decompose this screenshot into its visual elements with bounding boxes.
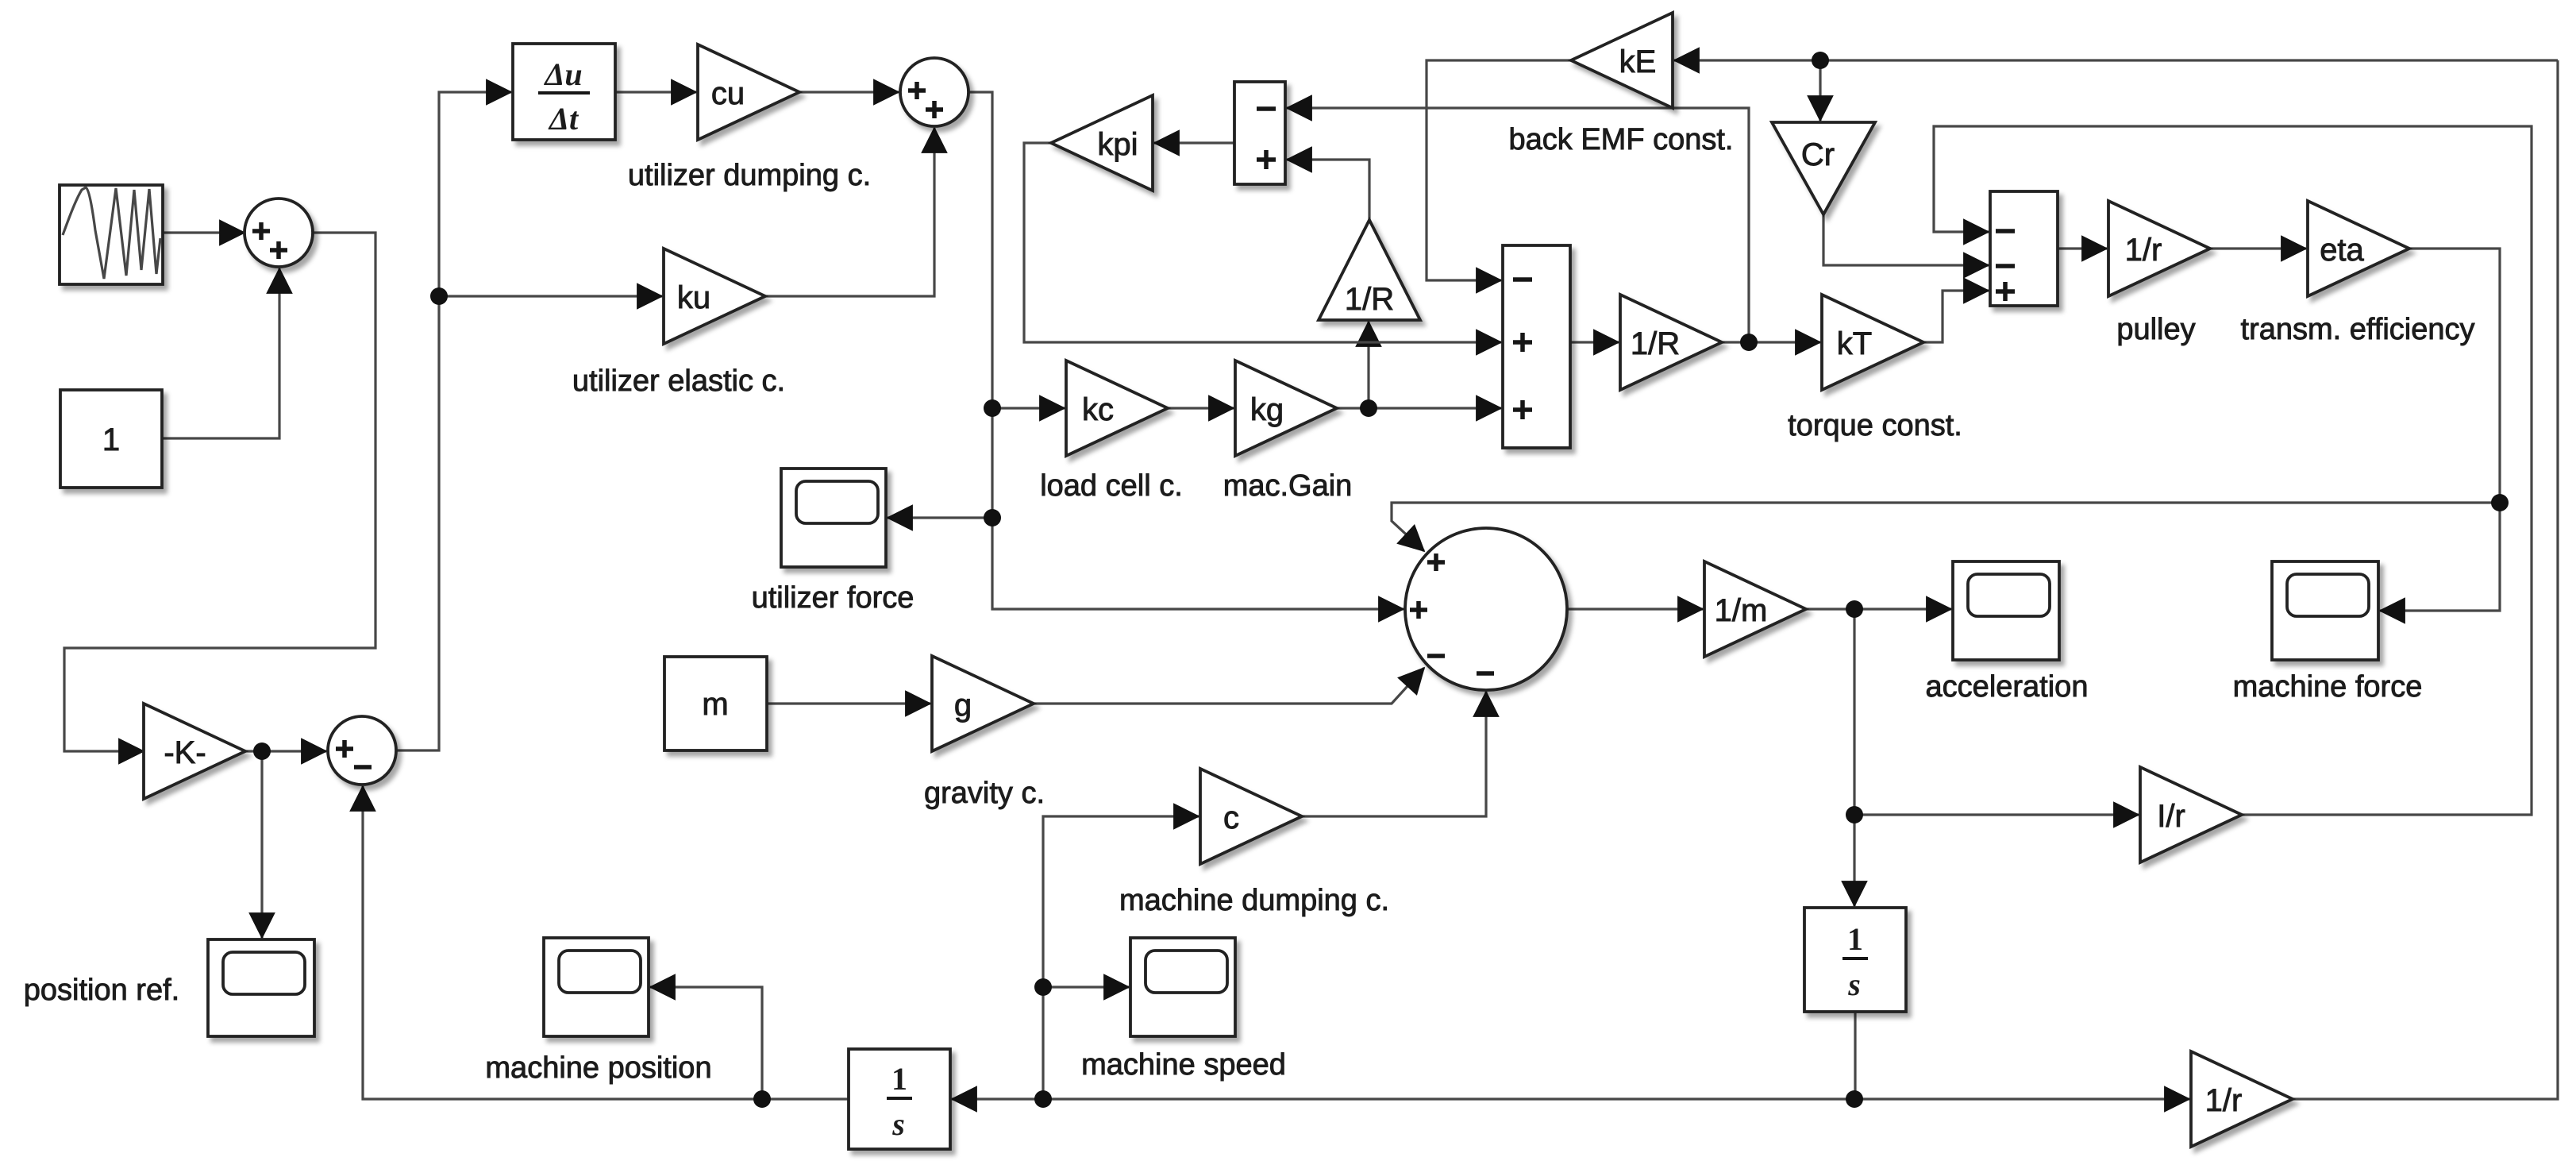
wire: sum S4 output to gain kpi	[1154, 141, 1234, 144]
svg-text:torque const.: torque const.	[1788, 409, 1962, 442]
sum block S6	[1990, 191, 2058, 306]
node: kc branch	[984, 399, 1001, 417]
big sum junction	[1405, 528, 1567, 690]
wire: gain 1/r pulley to gain eta	[2210, 247, 2306, 249]
svg-text:cu: cu	[711, 76, 745, 111]
wire: branch down to gain Cr	[1819, 60, 1821, 121]
wire: gain Cr to sum S6 middle minus input	[1823, 214, 1989, 265]
node: kg output branch	[1360, 399, 1377, 417]
svg-text:1: 1	[1847, 921, 1863, 957]
wire: branch up to machine position scope	[650, 987, 762, 1099]
sum junction S3	[900, 58, 968, 126]
wire: big sum output to gain 1/m	[1566, 607, 1703, 610]
svg-text:utilizer elastic c.: utilizer elastic c.	[572, 364, 785, 398]
gain kT	[1822, 295, 1923, 390]
svg-text:machine speed: machine speed	[1081, 1048, 1286, 1082]
svg-text:kT: kT	[1837, 326, 1872, 361]
svg-text:mac.Gain: mac.Gain	[1223, 469, 1353, 503]
integrator 1/s right	[1804, 908, 1906, 1012]
wire: gain cu to sum S3	[799, 91, 899, 93]
wire: gain kT to sum S6 plus input	[1923, 291, 1989, 342]
node: after -K-	[253, 742, 271, 760]
svg-text:1/R: 1/R	[1345, 282, 1394, 317]
gain eta	[2308, 201, 2409, 296]
constant block m	[664, 657, 767, 750]
node: utilizer force branch	[984, 509, 1001, 526]
wire: sum S3 output down to big sum left input	[968, 92, 1404, 609]
wire: gain 1/m to acceleration scope	[1806, 607, 1951, 610]
gain ku	[664, 249, 765, 344]
svg-text:I/r: I/r	[2157, 799, 2185, 834]
svg-text:utilizer force: utilizer force	[752, 581, 914, 615]
wire: gain 1/R (up) output to sum S4 plus input	[1287, 160, 1369, 220]
sum junction S1	[245, 199, 313, 267]
svg-text:kE: kE	[1619, 44, 1657, 79]
svg-text:kc: kc	[1082, 392, 1114, 427]
wire: branch to gain kc	[992, 407, 1065, 409]
gain 1/m	[1704, 561, 1806, 657]
wire: gain 1/r bottom output up right edge to speed feedback	[2293, 60, 2558, 1099]
svg-text:Δu: Δu	[543, 56, 582, 92]
node: current branch	[1740, 334, 1758, 351]
svg-text:kg: kg	[1250, 392, 1284, 427]
signal generator source block	[60, 185, 163, 284]
wire: gain ku to sum S3 bottom	[765, 128, 934, 296]
sum junction S2	[328, 716, 396, 785]
svg-text:1/r: 1/r	[2205, 1083, 2243, 1118]
svg-text:machine force: machine force	[2233, 670, 2423, 704]
svg-text:back EMF const.: back EMF const.	[1509, 123, 1734, 156]
integrator 1/s bottom	[849, 1049, 950, 1149]
svg-text:position ref.: position ref.	[24, 974, 179, 1007]
gain 1/R (up)	[1319, 220, 1420, 320]
gain kpi	[1051, 95, 1153, 191]
svg-text:1: 1	[891, 1061, 907, 1097]
node: I/r branch	[1846, 806, 1863, 823]
node: machine position branch	[753, 1090, 771, 1108]
wire: sum S5 output to gain 1/R	[1570, 341, 1619, 343]
wire: gain g to big sum lower-left minus input	[1034, 668, 1424, 704]
wire: current branch up to sum S4 minus input	[1287, 108, 1749, 342]
wire: gain kg to sum S5 bottom input	[1337, 407, 1501, 409]
wire: gain kE output to sum S5 minus input	[1427, 60, 1571, 280]
gain kE	[1571, 13, 1673, 108]
wire: speed line right to gain 1/r bottom	[1854, 1097, 2189, 1100]
wire: branch down to integrator 1/s right	[1853, 815, 1855, 906]
wire: gain eta output down to machine force scope	[2380, 249, 2500, 611]
gain g	[932, 656, 1034, 751]
wire: gain I/r output feedback to sum S6 top minus input	[1934, 126, 2532, 815]
svg-text:1: 1	[102, 422, 120, 457]
wire: gain -K- to sum S2	[245, 750, 326, 752]
wire: gain 1/R to gain kT	[1722, 341, 1820, 343]
wire: branch to big sum top plus input	[1392, 503, 2500, 551]
gain 1/r pulley	[2108, 201, 2210, 296]
svg-text:m: m	[702, 687, 728, 722]
scope: acceleration	[1953, 561, 2059, 660]
node: speed to Cr branch	[1812, 52, 1829, 69]
gain -K-	[144, 704, 245, 799]
svg-text:Δt: Δt	[548, 101, 580, 137]
constant block 1	[60, 390, 162, 488]
gain kg	[1235, 361, 1337, 456]
scope: position ref.	[208, 939, 314, 1036]
gain Cr	[1772, 122, 1875, 214]
scope: machine speed	[1130, 938, 1235, 1036]
scope: machine position	[544, 938, 649, 1036]
gain kc	[1066, 361, 1168, 456]
wire: branch to utilizer force scope	[888, 516, 992, 519]
sum block S4	[1234, 82, 1285, 184]
svg-text:pulley: pulley	[2116, 313, 2195, 346]
wire: gain kpi output to sum S5 middle input	[1024, 143, 1501, 342]
svg-text:1/R: 1/R	[1631, 326, 1680, 361]
wire: branch up to gain c input	[1043, 816, 1199, 1099]
sum block S5	[1503, 245, 1570, 448]
svg-text:eta: eta	[2320, 233, 2364, 268]
gain cu	[698, 44, 799, 140]
wire: integrator 1/s right output down to speed line	[1854, 1012, 1856, 1099]
svg-text:1/m: 1/m	[1715, 593, 1768, 628]
wire: integrator 1/s bottom output to sum S2 bottom	[363, 786, 849, 1099]
svg-text:c: c	[1223, 800, 1239, 835]
svg-text:ku: ku	[677, 280, 710, 315]
svg-text:Cr: Cr	[1801, 137, 1835, 172]
wire: speed line left to integrator 1/s bottom	[952, 1097, 1854, 1100]
svg-text:s: s	[891, 1106, 905, 1142]
svg-text:g: g	[954, 688, 972, 723]
gain 1/R	[1620, 295, 1722, 390]
svg-text:machine position: machine position	[485, 1051, 711, 1085]
wire: gain c to big sum bottom minus input	[1302, 692, 1486, 816]
svg-text:kpi: kpi	[1097, 127, 1138, 162]
node: machine speed scope branch	[1034, 978, 1052, 996]
svg-text:transm. efficiency: transm. efficiency	[2241, 313, 2475, 346]
wire: sum S2 output trunk up to du/dt block	[396, 92, 511, 750]
wire: branch to gain ku	[439, 295, 662, 297]
wire: branch down to gain I/r	[1854, 609, 2139, 815]
wire: sum S6 output to gain 1/r pulley	[2058, 247, 2107, 249]
wire: branch to position ref. scope	[260, 751, 263, 938]
wire: sum S1 output to gain -K-	[64, 233, 375, 751]
derivative block du/dt	[513, 44, 615, 140]
svg-text:gravity c.: gravity c.	[924, 777, 1045, 810]
wire: speed feedback line to gain kE	[1674, 59, 2558, 61]
scope: machine force	[2272, 561, 2378, 660]
wire: signal generator to sum S1	[163, 231, 245, 233]
svg-text:machine dumping c.: machine dumping c.	[1119, 884, 1389, 917]
svg-text:s: s	[1847, 966, 1861, 1002]
gain c	[1200, 769, 1302, 864]
wire: constant m to gain g	[767, 702, 930, 704]
svg-text:1/r: 1/r	[2125, 233, 2162, 268]
svg-text:acceleration: acceleration	[1926, 670, 2089, 704]
node: acceleration branch	[1846, 600, 1863, 618]
wire: du/dt block to gain cu	[615, 91, 696, 93]
gain I/r	[2140, 767, 2242, 862]
scope: utilizer force	[781, 469, 886, 567]
wire: branch to machine speed scope	[1043, 985, 1129, 988]
wire: gain kc to gain kg	[1168, 407, 1234, 409]
node: speed line center	[1846, 1090, 1863, 1108]
node: eta feedback branch	[2491, 494, 2509, 511]
svg-text:-K-: -K-	[164, 735, 206, 770]
svg-text:load cell c.: load cell c.	[1040, 469, 1183, 503]
wire: constant 1 to sum S1 bottom	[162, 268, 279, 438]
gain 1/r bottom	[2191, 1051, 2293, 1147]
svg-text:utilizer dumping c.: utilizer dumping c.	[628, 159, 871, 192]
wire: branch up to gain 1/R (up)	[1367, 322, 1369, 408]
node: branch to ku	[430, 287, 448, 305]
node: machine speed branch	[1034, 1090, 1052, 1108]
